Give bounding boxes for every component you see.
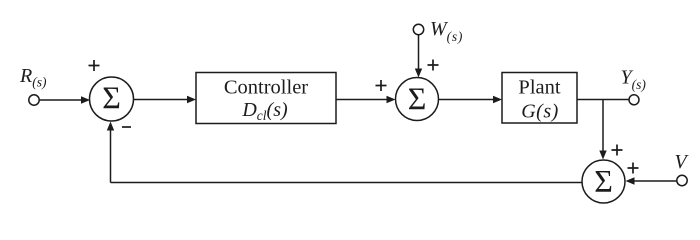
svg-text:Controller: Controller (224, 77, 308, 99)
svg-text:Σ: Σ (102, 80, 121, 116)
svg-text:G(s): G(s) (521, 101, 559, 123)
svg-text:Plant: Plant (518, 77, 560, 99)
svg-text:Σ: Σ (594, 163, 613, 199)
svg-text:Σ: Σ (408, 81, 427, 117)
